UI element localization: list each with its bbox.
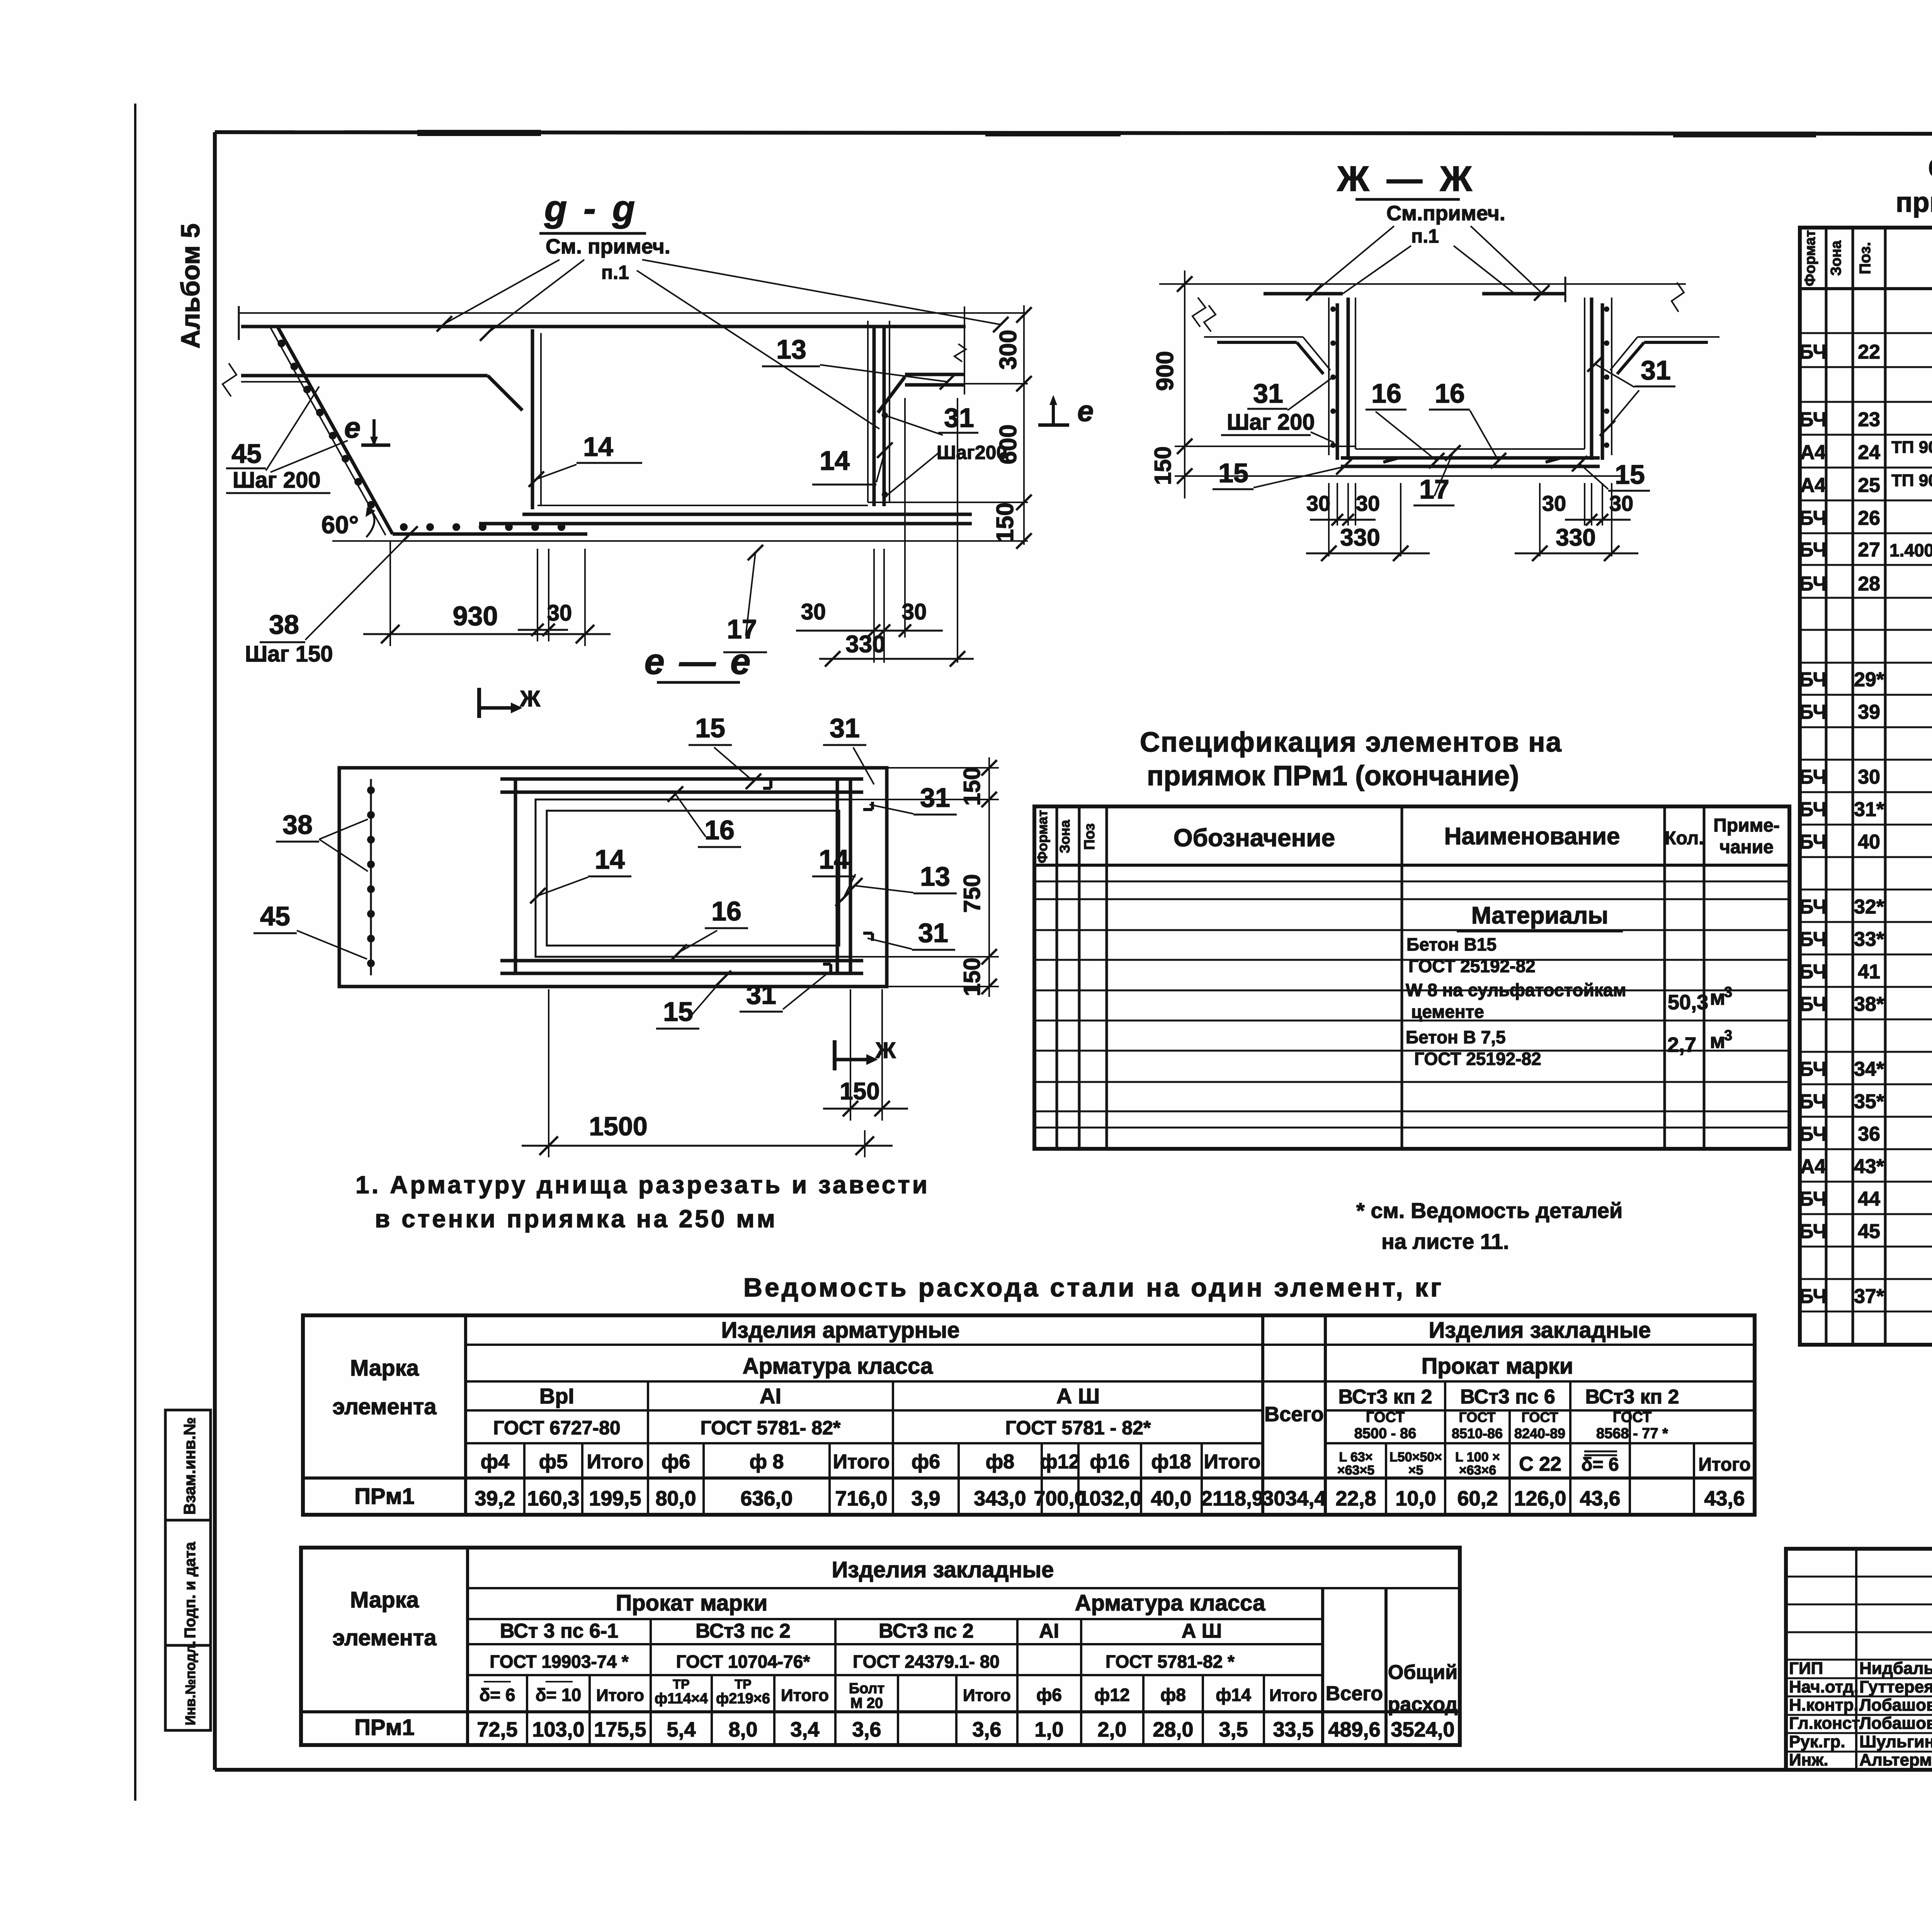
svg-text:Зона: Зона — [1057, 820, 1073, 853]
svg-text:150: 150 — [992, 502, 1019, 542]
svg-text:ГОСТ 19903-74 *: ГОСТ 19903-74 * — [490, 1652, 628, 1672]
svg-text:Приме-: Приме- — [1713, 815, 1780, 836]
stamp box Подп. и дата — [165, 1520, 211, 1645]
svg-text:Альбом 5: Альбом 5 — [176, 223, 205, 349]
right dim chain 150 750 150 plan — [887, 767, 999, 769]
svg-text:АI: АI — [760, 1384, 781, 1408]
svg-text:716,0: 716,0 — [835, 1487, 887, 1510]
svg-text:33,5: 33,5 — [1273, 1718, 1313, 1741]
svg-text:ГОСТ 25192-82: ГОСТ 25192-82 — [1408, 956, 1536, 976]
left wall rebar pair 31 — [1336, 303, 1339, 460]
svg-text:30: 30 — [547, 600, 572, 626]
svg-text:45: 45 — [231, 439, 262, 469]
svg-text:ф8: ф8 — [986, 1451, 1014, 1473]
svg-text:750: 750 — [959, 874, 985, 913]
svg-text:ГОСТ: ГОСТ — [1366, 1409, 1405, 1425]
svg-text:50,3: 50,3 — [1668, 991, 1708, 1014]
step extension line with break — [964, 306, 965, 395]
svg-text:38: 38 — [269, 609, 299, 640]
svg-text:Итого: Итого — [833, 1451, 890, 1473]
plan right wall rebar pair — [836, 779, 839, 973]
svg-text:ПРм1: ПРм1 — [354, 1715, 415, 1740]
svg-text:Наименование: Наименование — [1444, 823, 1620, 850]
svg-text:Изделия закладные: Изделия закладные — [1429, 1318, 1651, 1343]
svg-text:×63×6: ×63×6 — [1459, 1463, 1496, 1478]
svg-text:элемента: элемента — [332, 1625, 437, 1650]
slab top outline Zh — [1204, 283, 1686, 285]
left wall stirrup dots — [1330, 306, 1336, 312]
plan left wall rebar — [514, 779, 517, 973]
svg-text:ф5: ф5 — [539, 1451, 568, 1473]
right step rebar pair — [905, 373, 964, 376]
svg-text:×5: ×5 — [1408, 1463, 1423, 1478]
svg-text:L 63×: L 63× — [1339, 1450, 1372, 1465]
svg-text:45: 45 — [1858, 1220, 1880, 1243]
svg-text:БЧ: БЧ — [1799, 1090, 1827, 1113]
stamp box Инв.№подл. — [165, 1645, 211, 1730]
slab soffit outline left Zh — [1204, 336, 1303, 338]
plan pit inner wall outline — [547, 811, 839, 946]
svg-text:103,0: 103,0 — [532, 1718, 584, 1741]
svg-text:ГОСТ 6727-80: ГОСТ 6727-80 — [493, 1417, 620, 1439]
svg-text:31: 31 — [830, 713, 860, 743]
svg-text:Рук.гр.: Рук.гр. — [1789, 1732, 1845, 1751]
svg-text:28,0: 28,0 — [1153, 1718, 1193, 1741]
svg-text:16: 16 — [1371, 378, 1401, 408]
svg-text:Ж: Ж — [520, 686, 541, 711]
svg-text:ГИП: ГИП — [1789, 1659, 1823, 1678]
svg-text:38*: 38* — [1854, 993, 1884, 1015]
svg-text:ф4: ф4 — [481, 1451, 510, 1473]
stamp box Взам.инв.№ — [165, 1410, 211, 1520]
svg-text:14: 14 — [595, 844, 625, 874]
svg-text:Нидбальский: Нидбальский — [1859, 1659, 1932, 1678]
svg-text:3: 3 — [1724, 1027, 1732, 1044]
svg-text:Арматура класса: Арматура класса — [1075, 1590, 1265, 1616]
svg-text:14: 14 — [819, 844, 849, 874]
svg-text:26: 26 — [1858, 507, 1880, 529]
svg-text:Шаг200: Шаг200 — [937, 442, 1007, 463]
svg-text:ВСт 3 пс 6-1: ВСт 3 пс 6-1 — [500, 1620, 618, 1642]
svg-text:3,9: 3,9 — [911, 1487, 940, 1510]
svg-text:31: 31 — [920, 782, 950, 813]
pit floor rebar 38 with dots — [393, 532, 587, 536]
svg-text:БЧ: БЧ — [1799, 507, 1827, 529]
svg-text:Шаг 200: Шаг 200 — [1227, 410, 1315, 435]
svg-text:п.1: п.1 — [1411, 225, 1439, 247]
svg-text:60,2: 60,2 — [1457, 1487, 1498, 1510]
svg-text:δ= 10: δ= 10 — [536, 1685, 582, 1705]
svg-text:1.400-15 В.1 230-05: 1.400-15 В.1 230-05 — [1889, 540, 1932, 560]
svg-text:16: 16 — [1435, 378, 1465, 408]
svg-text:3,6: 3,6 — [972, 1718, 1001, 1741]
svg-text:Спецификация элементов на: Спецификация элементов на — [1928, 153, 1932, 184]
svg-text:1,0: 1,0 — [1034, 1718, 1063, 1741]
svg-text:Формат: Формат — [1034, 810, 1050, 863]
right wall outer outline — [1611, 298, 1612, 455]
svg-text:Бетон В 7,5: Бетон В 7,5 — [1406, 1027, 1506, 1047]
svg-text:17: 17 — [1419, 474, 1449, 504]
svg-text:ф8: ф8 — [1160, 1685, 1186, 1705]
svg-text:L50×50×: L50×50× — [1389, 1450, 1442, 1465]
svg-text:3,5: 3,5 — [1219, 1718, 1248, 1741]
steel table 1 vertical lines — [464, 1315, 467, 1515]
svg-text:См. примеч.: См. примеч. — [546, 235, 670, 258]
svg-text:72,5: 72,5 — [477, 1718, 517, 1741]
svg-text:38: 38 — [282, 810, 313, 840]
svg-text:900: 900 — [1152, 351, 1179, 391]
middle spec table grid — [1034, 806, 1789, 1149]
svg-text:Шаг 200: Шаг 200 — [233, 468, 321, 493]
svg-text:Итого: Итого — [596, 1686, 644, 1705]
right wall inner outline — [1584, 298, 1585, 449]
svg-text:расход: расход — [1388, 1693, 1458, 1716]
svg-text:3034,4: 3034,4 — [1262, 1487, 1326, 1510]
svg-text:22,8: 22,8 — [1335, 1487, 1376, 1510]
svg-text:39: 39 — [1858, 701, 1880, 723]
svg-text:ГОСТ: ГОСТ — [1521, 1409, 1558, 1425]
svg-text:330: 330 — [1556, 524, 1595, 551]
svg-text:150: 150 — [959, 958, 985, 996]
pit right wall outlines — [867, 321, 869, 502]
vertical dimension chain 300 600 150 — [1023, 305, 1025, 545]
plan bottom wall rebar pair — [500, 959, 863, 963]
leader lines from note to slab rebar — [444, 260, 560, 324]
svg-text:31: 31 — [918, 918, 948, 948]
svg-text:636,0: 636,0 — [740, 1487, 793, 1510]
svg-text:ВСт3 кп 2: ВСт3 кп 2 — [1585, 1386, 1679, 1408]
svg-text:39,2: 39,2 — [474, 1487, 515, 1510]
svg-text:* см. Ведомость деталей: * см. Ведомость деталей — [1356, 1198, 1622, 1223]
svg-text:14: 14 — [583, 432, 613, 462]
svg-text:W 8 на сульфатостойкам: W 8 на сульфатостойкам — [1406, 980, 1626, 1000]
svg-text:3: 3 — [1724, 984, 1732, 1000]
svg-text:Инв.№подл.: Инв.№подл. — [182, 1641, 198, 1725]
svg-text:199,5: 199,5 — [589, 1487, 641, 1510]
svg-text:Итого: Итого — [781, 1686, 829, 1705]
svg-text:Бетон В15: Бетон В15 — [1406, 934, 1497, 954]
svg-text:δ= 6: δ= 6 — [479, 1685, 515, 1705]
break symbols slab ends Zh — [1192, 298, 1206, 327]
floor mesh rebar 17 double lines — [522, 513, 972, 516]
svg-text:ВСт3 кп 2: ВСт3 кп 2 — [1338, 1386, 1432, 1408]
svg-text:Ведомость расхода стали на: Ведомость расхода стали на один элемент,… — [743, 1273, 1444, 1302]
svg-text:30: 30 — [1858, 766, 1880, 788]
section marker Zh bottom — [833, 1040, 837, 1070]
svg-text:930: 930 — [453, 601, 498, 631]
svg-text:Ж: Ж — [875, 1038, 896, 1063]
svg-text:ГОСТ 5781-82 *: ГОСТ 5781-82 * — [1105, 1652, 1235, 1672]
slab top rebar Zh right — [1482, 292, 1565, 296]
steel table 2 outer border — [301, 1548, 1460, 1745]
left dim chain 900 150 Zh — [1175, 446, 1355, 447]
svg-text:приямок ПРм1 (оконча: приямок ПРм1 (окончание) — [1147, 760, 1519, 791]
svg-text:31: 31 — [944, 403, 974, 433]
svg-text:300: 300 — [995, 330, 1022, 369]
svg-text:Формат: Формат — [1802, 230, 1818, 286]
svg-text:ГОСТ: ГОСТ — [1613, 1409, 1651, 1425]
scan edge thickening marks on top line — [417, 130, 541, 136]
svg-text:1. Арматуру днища разрезать: 1. Арматуру днища разрезать и завести — [355, 1171, 930, 1199]
plan top wall rebar pair — [500, 777, 863, 781]
svg-text:Шаг 150: Шаг 150 — [245, 641, 333, 667]
svg-text:3524,0: 3524,0 — [1391, 1718, 1454, 1741]
svg-text:м: м — [1710, 986, 1725, 1009]
svg-text:Взам.инв.№: Взам.инв.№ — [180, 1417, 199, 1515]
svg-text:ГОСТ 5781 - 82*: ГОСТ 5781 - 82* — [1005, 1417, 1151, 1439]
svg-text:28: 28 — [1858, 573, 1880, 595]
svg-text:на листе 11.: на листе 11. — [1381, 1229, 1509, 1254]
svg-text:150: 150 — [959, 767, 985, 806]
svg-text:Итого: Итого — [963, 1686, 1011, 1705]
svg-text:Альтерман: Альтерман — [1859, 1750, 1932, 1769]
svg-text:37*: 37* — [1854, 1285, 1884, 1308]
svg-text:Поз: Поз — [1082, 823, 1098, 850]
plan pit outer wall outline — [536, 799, 850, 957]
slab top rebar Zh left — [1264, 292, 1343, 296]
svg-text:45: 45 — [260, 901, 290, 931]
svg-text:ф12: ф12 — [1094, 1685, 1129, 1705]
svg-text:15: 15 — [1615, 459, 1645, 490]
svg-text:g - g: g - g — [544, 188, 638, 229]
break on left dim ext — [1204, 305, 1216, 332]
svg-text:А4: А4 — [1800, 1155, 1826, 1178]
steel table 1 horizontal lines — [466, 1344, 1263, 1346]
svg-text:40: 40 — [1858, 831, 1880, 853]
svg-text:150: 150 — [840, 1078, 879, 1105]
steel table 2 horizontal lines — [468, 1587, 1460, 1589]
bottom dims Zh left 30 30 330 — [1328, 483, 1330, 556]
pit floor rebar pair 15/17 — [1341, 456, 1600, 460]
svg-text:Прокат марки: Прокат марки — [616, 1590, 768, 1616]
svg-text:Болт: Болт — [849, 1681, 884, 1697]
pit walls Zh: left outer outline — [1328, 298, 1330, 455]
slab bottom rebar left with hook — [241, 374, 488, 378]
svg-text:ГОСТ 24379.1- 80: ГОСТ 24379.1- 80 — [853, 1652, 1000, 1672]
right wall rebar hook — [878, 377, 905, 413]
svg-text:Зона: Зона — [1828, 240, 1844, 276]
svg-text:Изделия закладные: Изделия закладные — [832, 1557, 1054, 1582]
svg-text:60°: 60° — [321, 511, 359, 539]
svg-text:ТР: ТР — [673, 1677, 689, 1692]
sloped rebar 45 of pit side — [277, 327, 393, 534]
svg-text:А4: А4 — [1800, 441, 1826, 464]
slab top outline — [239, 312, 1026, 314]
svg-text:Н.контр.: Н.контр. — [1789, 1696, 1859, 1715]
svg-text:32*: 32* — [1854, 896, 1884, 918]
plan slab rebar dotted line 38/45 — [370, 779, 372, 975]
break symbol left end — [223, 363, 236, 396]
svg-text:ПРм1: ПРм1 — [354, 1484, 415, 1509]
page left fold edge line — [134, 104, 136, 1801]
svg-text:ГОСТ 25192-82: ГОСТ 25192-82 — [1414, 1049, 1541, 1069]
svg-text:ВрI: ВрI — [539, 1384, 574, 1408]
svg-text:БЧ: БЧ — [1799, 341, 1827, 363]
svg-text:С 22: С 22 — [1519, 1453, 1561, 1475]
svg-text:15: 15 — [695, 713, 725, 743]
pit floor top outline — [537, 505, 868, 506]
svg-text:ф18: ф18 — [1151, 1451, 1191, 1473]
svg-text:330: 330 — [845, 631, 885, 658]
svg-text:БЧ: БЧ — [1799, 766, 1827, 788]
sheet top edge / frame top line — [215, 132, 1932, 134]
rebar section dots on slope bar 45 — [277, 340, 285, 347]
svg-text:30: 30 — [801, 599, 826, 624]
svg-text:м: м — [1710, 1029, 1725, 1053]
svg-text:29*: 29* — [1854, 668, 1884, 691]
svg-text:150: 150 — [1150, 446, 1176, 485]
dims 30 330 30 right bottom — [873, 549, 875, 663]
svg-text:элемента: элемента — [332, 1394, 437, 1419]
svg-text:44: 44 — [1858, 1188, 1880, 1210]
left wall inner outline — [1355, 298, 1356, 449]
svg-text:Нач.отд.: Нач.отд. — [1789, 1677, 1859, 1696]
slab top rebar 13 — [241, 325, 966, 328]
svg-text:e: e — [1077, 395, 1094, 428]
svg-text:БЧ: БЧ — [1799, 831, 1827, 853]
svg-text:ВСт3 пс 2: ВСт3 пс 2 — [879, 1620, 974, 1642]
svg-text:23: 23 — [1858, 408, 1880, 431]
svg-text:30: 30 — [1609, 491, 1633, 515]
dim 1500 bottom plan — [548, 989, 549, 1157]
svg-text:А Ш: А Ш — [1182, 1620, 1222, 1642]
svg-text:27: 27 — [1858, 539, 1880, 561]
svg-text:8500 - 86: 8500 - 86 — [1354, 1425, 1417, 1442]
svg-text:30: 30 — [1356, 491, 1380, 515]
svg-text:126,0: 126,0 — [1514, 1487, 1566, 1510]
leader lines from note Zh — [1314, 226, 1394, 293]
dim 150 bottom right plan — [850, 989, 851, 1121]
svg-text:Марка: Марка — [350, 1587, 419, 1613]
svg-text:ф6: ф6 — [912, 1451, 940, 1473]
slab soffit outline right Zh — [1638, 336, 1719, 338]
svg-text:3,4: 3,4 — [790, 1718, 819, 1741]
svg-text:АI: АI — [1039, 1620, 1059, 1642]
svg-text:Изделия арматурные: Изделия арматурные — [721, 1318, 960, 1343]
svg-text:3,6: 3,6 — [852, 1718, 881, 1741]
svg-text:2,7: 2,7 — [1667, 1033, 1696, 1056]
svg-text:ф6: ф6 — [1036, 1685, 1062, 1705]
svg-text:п.1: п.1 — [601, 262, 629, 283]
svg-text:33*: 33* — [1854, 928, 1884, 951]
svg-text:БЧ: БЧ — [1799, 408, 1827, 431]
svg-text:БЧ: БЧ — [1799, 1220, 1827, 1243]
svg-text:43,6: 43,6 — [1704, 1487, 1745, 1510]
svg-text:ф 8: ф 8 — [750, 1451, 784, 1473]
floor top extension to dim — [868, 502, 1028, 503]
slab soffit rebar right Zh — [1644, 341, 1708, 344]
svg-text:5,4: 5,4 — [667, 1718, 696, 1741]
svg-text:М 20: М 20 — [850, 1695, 883, 1711]
svg-text:8568 - 77 *: 8568 - 77 * — [1596, 1425, 1668, 1442]
excavation slope outline — [270, 328, 386, 535]
svg-text:БЧ: БЧ — [1799, 539, 1827, 561]
svg-text:489,6: 489,6 — [1328, 1718, 1380, 1741]
plan outer slab rectangle — [339, 768, 887, 987]
svg-text:ГОСТ 5781- 82*: ГОСТ 5781- 82* — [701, 1417, 841, 1439]
svg-text:А4: А4 — [1800, 474, 1826, 497]
svg-text:δ= 6: δ= 6 — [1581, 1454, 1619, 1475]
pit left wall outline — [540, 333, 542, 505]
svg-text:43*: 43* — [1854, 1155, 1884, 1178]
slab soffit rebar left Zh — [1217, 341, 1297, 344]
svg-text:Кол.: Кол. — [1665, 828, 1704, 849]
svg-text:×63×5: ×63×5 — [1337, 1463, 1374, 1478]
svg-text:17: 17 — [727, 614, 757, 644]
svg-text:БЧ: БЧ — [1799, 1058, 1827, 1080]
svg-text:Прокат марки: Прокат марки — [1422, 1354, 1573, 1379]
svg-text:БЧ: БЧ — [1799, 1285, 1827, 1308]
svg-text:8,0: 8,0 — [728, 1718, 757, 1741]
svg-text:330: 330 — [1340, 524, 1380, 551]
svg-text:ТР: ТР — [735, 1677, 751, 1692]
svg-text:Шульгина: Шульгина — [1859, 1732, 1932, 1751]
svg-text:БЧ: БЧ — [1799, 993, 1827, 1015]
svg-text:Итого: Итого — [1698, 1454, 1750, 1475]
svg-text:16: 16 — [711, 896, 742, 926]
svg-text:ф114×4: ф114×4 — [655, 1691, 708, 1707]
svg-text:160,3: 160,3 — [527, 1487, 579, 1510]
svg-text:15: 15 — [1218, 458, 1248, 488]
svg-text:2,0: 2,0 — [1097, 1718, 1126, 1741]
svg-text:40,0: 40,0 — [1151, 1487, 1191, 1510]
svg-text:Инж.: Инж. — [1789, 1750, 1828, 1769]
svg-text:10,0: 10,0 — [1395, 1487, 1436, 1510]
svg-text:Всего: Всего — [1326, 1682, 1383, 1705]
section marker Zh top — [477, 688, 481, 718]
bottom dims Zh right 30 30 330 — [1611, 483, 1612, 556]
svg-text:1032,0: 1032,0 — [1078, 1487, 1141, 1510]
steel table 2 vertical lines — [466, 1548, 469, 1745]
svg-text:Итого: Итого — [1269, 1686, 1317, 1705]
dim 930 bottom — [389, 541, 391, 646]
right spec table grid — [1800, 228, 1932, 1345]
svg-text:Спецификация элементов на: Спецификация элементов на — [1140, 727, 1562, 758]
svg-text:343,0: 343,0 — [974, 1487, 1026, 1510]
svg-text:e — e: e — e — [645, 641, 753, 682]
svg-text:e: e — [344, 412, 361, 444]
svg-text:175,5: 175,5 — [594, 1718, 646, 1741]
svg-text:БЧ: БЧ — [1799, 928, 1827, 951]
floor rebar hook marks — [1383, 458, 1399, 462]
svg-text:Поз.: Поз. — [1857, 242, 1874, 274]
svg-text:приямок ПРм1 (продол: приямок ПРм1 (продолжение) — [1896, 187, 1932, 218]
svg-text:Итого: Итого — [587, 1451, 644, 1473]
svg-text:БЧ: БЧ — [1799, 798, 1827, 821]
svg-text:30: 30 — [1542, 491, 1566, 515]
svg-text:31: 31 — [1641, 355, 1671, 385]
svg-text:А Ш: А Ш — [1056, 1384, 1100, 1408]
svg-text:Гуттереяский: Гуттереяский — [1859, 1677, 1932, 1696]
svg-text:30: 30 — [1306, 491, 1330, 515]
svg-text:43,6: 43,6 — [1580, 1487, 1620, 1510]
svg-text:15: 15 — [663, 997, 693, 1027]
right wall rebar pair 31 — [1590, 298, 1594, 460]
svg-text:БЧ: БЧ — [1799, 896, 1827, 918]
svg-text:1500: 1500 — [589, 1112, 647, 1141]
rebar hook marks plan — [769, 779, 772, 788]
svg-text:ВСт3 пс 6: ВСт3 пс 6 — [1460, 1386, 1555, 1408]
section marker e right — [1038, 424, 1069, 427]
svg-text:Марка: Марка — [350, 1356, 419, 1381]
svg-text:36: 36 — [1858, 1123, 1880, 1145]
svg-text:в стенки приямка на 250 мм: в стенки приямка на 250 мм — [375, 1205, 777, 1233]
svg-text:БЧ: БЧ — [1799, 701, 1827, 723]
svg-text:цементе: цементе — [1411, 1002, 1484, 1022]
pit left wall rebar 14 — [531, 329, 534, 509]
svg-text:30: 30 — [902, 599, 927, 624]
svg-text:чание: чание — [1719, 837, 1774, 857]
